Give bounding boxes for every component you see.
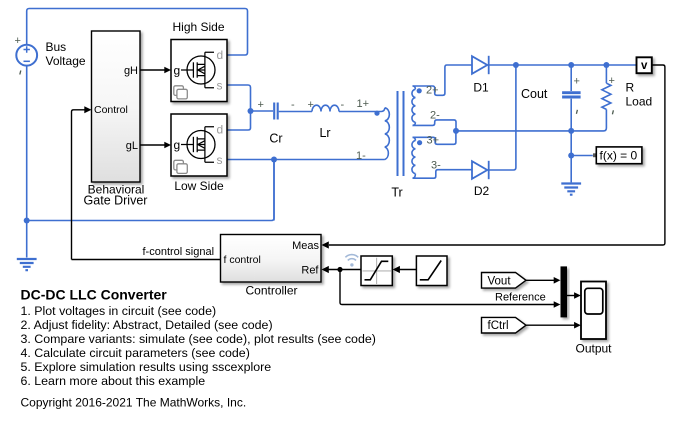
block name labels	[46, 20, 653, 356]
svg-text:g: g	[174, 138, 181, 152]
diode D1	[472, 56, 489, 74]
svg-text:s: s	[217, 79, 223, 93]
wire D1 cathode to V sensor	[489, 64, 637, 66]
mosfet block Q1 High Side	[171, 40, 227, 102]
svg-text:+: +	[609, 75, 615, 87]
svg-text:-: -	[291, 99, 295, 111]
scope Output	[581, 282, 606, 340]
svg-text:Tr: Tr	[391, 186, 402, 200]
svg-text:3. Compare variants: simulate: 3. Compare variants: simulate (see code)…	[21, 332, 376, 346]
wireless icon	[345, 255, 358, 267]
svg-text:+: +	[15, 35, 21, 47]
svg-text:s: s	[217, 153, 223, 167]
svg-text:6. Learn more about this examp: 6. Learn more about this example	[21, 374, 206, 388]
svg-text:Ref: Ref	[301, 264, 319, 276]
saturation block	[361, 256, 392, 286]
svg-text:Reference: Reference	[495, 291, 546, 303]
wire R Load bottom to mid rail	[571, 109, 606, 130]
arrow into saturation	[393, 266, 400, 273]
wire node A to Cr	[251, 110, 274, 112]
capacitor Cr	[274, 103, 278, 120]
svg-text:Low Side: Low Side	[174, 179, 224, 193]
svg-text:fCtrl: fCtrl	[488, 320, 509, 332]
svg-text:1. Plot voltages in circuit (s: 1. Plot voltages in circuit (see code)	[21, 304, 217, 318]
svg-text:f control: f control	[224, 254, 261, 266]
capacitor Cout	[562, 93, 581, 97]
voltage source V1 Bus Voltage	[16, 45, 37, 66]
transformer dot winding3	[417, 140, 422, 145]
svg-text:D2: D2	[474, 184, 490, 198]
svg-text:DC-DC LLC Converter: DC-DC LLC Converter	[21, 287, 168, 303]
node D1/D2 cathode junction	[513, 62, 519, 68]
diode D2	[472, 161, 489, 179]
svg-text:4. Calculate circuit parameter: 4. Calculate circuit parameters (see cod…	[21, 346, 250, 360]
wire Ref branch down to mux	[340, 270, 555, 305]
svg-text:-: -	[341, 99, 345, 111]
arrow into scope bottom	[574, 322, 581, 329]
transformer Tr primary winding	[381, 108, 389, 160]
signal arrowheads	[84, 67, 581, 329]
svg-text:Gate Driver: Gate Driver	[84, 194, 148, 208]
svg-text:Meas: Meas	[292, 240, 319, 252]
svg-text:Lr: Lr	[319, 126, 330, 140]
wire Cout bottom to mid rail and ground	[570, 99, 572, 156]
solver block f(x) = 0	[593, 147, 642, 164]
mux	[561, 266, 568, 317]
inductor Lr	[312, 105, 339, 111]
resistor R Load	[602, 83, 611, 109]
svg-text:f-control signal: f-control signal	[143, 246, 215, 258]
svg-text:Cout: Cout	[521, 87, 548, 101]
junction Ref branch	[337, 267, 342, 272]
node Cout bottom junction	[568, 128, 574, 134]
arrow into mux top	[554, 277, 561, 284]
label R tick	[612, 110, 613, 114]
svg-text:Output: Output	[575, 342, 612, 356]
svg-text:5. Explore simulation results: 5. Explore simulation results using ssce…	[21, 360, 272, 374]
svg-text:R: R	[626, 81, 635, 95]
node bus/ground junction	[24, 218, 30, 224]
ground left	[17, 259, 37, 270]
subsystem U1 Behavioral Gate Driver	[92, 31, 141, 182]
svg-text:d: d	[217, 123, 224, 137]
node f(x) tap junction	[568, 153, 574, 159]
label V1 minus tick	[20, 71, 21, 75]
wire control signal vertical	[72, 110, 85, 260]
svg-text:gH: gH	[124, 65, 138, 77]
node low-side/1- junction	[271, 157, 277, 163]
transformer Tr winding 2	[412, 86, 415, 125]
goto tag Vout	[482, 273, 527, 289]
wire fCtrl to scope	[526, 324, 575, 326]
black signal wires	[72, 65, 665, 325]
arrow into Control port	[84, 106, 91, 113]
transformer dot primary	[374, 111, 379, 116]
wire gH to High Side gate	[140, 69, 165, 71]
svg-text:+: +	[574, 76, 580, 88]
svg-text:+: +	[308, 99, 314, 111]
wire bottom rail	[27, 160, 274, 221]
rate limiter block	[416, 256, 447, 286]
wire winding3 bottom to D2 anode	[413, 170, 473, 179]
transformer Tr winding 3	[412, 137, 415, 178]
label Cout tick	[576, 110, 577, 114]
svg-text:g: g	[174, 63, 181, 77]
arrow into scope top	[574, 292, 581, 299]
svg-text:f(x) = 0: f(x) = 0	[600, 149, 638, 163]
svg-text:Cr: Cr	[269, 132, 282, 146]
wire High Side source down to node A	[227, 85, 251, 130]
goto tag fCtrl	[482, 317, 527, 333]
wire D2 cathode up to top rail	[489, 65, 516, 170]
svg-text:1+: 1+	[357, 98, 370, 110]
wire winding2 top to D1 anode	[413, 65, 473, 95]
wire mux to scope	[567, 295, 575, 297]
description text	[21, 287, 376, 410]
arrow into Controller Meas	[322, 241, 329, 248]
node R top junction	[603, 62, 609, 68]
wire Vout to mux	[526, 279, 555, 281]
node B junction	[453, 128, 459, 134]
svg-text:Control: Control	[94, 104, 128, 116]
svg-text:1-: 1-	[356, 150, 366, 162]
wire rate limiter to saturation	[400, 269, 417, 271]
wire Cout top	[570, 65, 572, 91]
svg-text:Voltage: Voltage	[46, 54, 86, 68]
svg-text:2+: 2+	[426, 85, 439, 97]
svg-text:Copyright 2016-2021 The MathWo: Copyright 2016-2021 The MathWorks, Inc.	[21, 396, 247, 410]
wire Lr to transformer 1+	[339, 111, 381, 113]
wire Bus Voltage bottom to bottom rail	[26, 66, 28, 221]
ground right	[561, 184, 581, 195]
svg-text:+: +	[258, 99, 264, 111]
wire Cr to Lr	[279, 111, 312, 113]
wire winding3 top to node B	[413, 131, 456, 144]
svg-text:Load: Load	[626, 95, 653, 109]
wire Ref from saturation	[329, 269, 362, 271]
wire top rail from Bus Voltage to High Side drain	[27, 9, 248, 56]
transformer Tr core	[398, 91, 404, 176]
svg-text:2-: 2-	[430, 110, 440, 122]
mosfet block Q2 Low Side	[171, 114, 227, 176]
sensor V	[637, 57, 652, 73]
node Cout top junction	[568, 62, 574, 68]
svg-text:High Side: High Side	[172, 20, 224, 34]
svg-text:2. Adjust fidelity: Abstract,: 2. Adjust fidelity: Abstract, Detailed (…	[21, 318, 273, 332]
svg-text:D1: D1	[473, 81, 489, 95]
wire f-control signal	[72, 259, 221, 261]
arrow into Low Side g	[164, 142, 171, 149]
wire low-side node to bottom rail	[273, 160, 275, 221]
svg-text:3+: 3+	[427, 135, 440, 147]
svg-text:Vout: Vout	[488, 275, 512, 287]
wire winding2 bottom to node B	[413, 120, 457, 131]
wire ground stub	[570, 156, 572, 183]
wire Meas from V sensor	[329, 65, 665, 245]
transformer dot winding2	[417, 88, 422, 93]
svg-text:Controller: Controller	[245, 284, 297, 298]
svg-text:d: d	[217, 48, 224, 62]
svg-text:v: v	[641, 60, 648, 72]
wire gL to Low Side gate	[140, 144, 165, 146]
svg-text:gL: gL	[126, 140, 138, 152]
wire f(x)=0 tap	[571, 155, 593, 157]
wire R Load top	[605, 65, 607, 83]
arrow into mux bottom	[554, 301, 561, 308]
subsystem U2 Controller	[221, 235, 322, 283]
arrow into Controller Ref	[322, 266, 329, 273]
svg-text:3-: 3-	[431, 160, 441, 172]
polarity labels	[15, 35, 615, 172]
wire left ground stub	[26, 221, 28, 258]
wire Low Side source / 1- return	[227, 159, 381, 161]
arrow into High Side g	[164, 67, 171, 74]
svg-text:Bus: Bus	[46, 40, 67, 54]
wire mid rail node B to Cout bottom	[456, 130, 571, 132]
node A junction	[248, 108, 254, 114]
